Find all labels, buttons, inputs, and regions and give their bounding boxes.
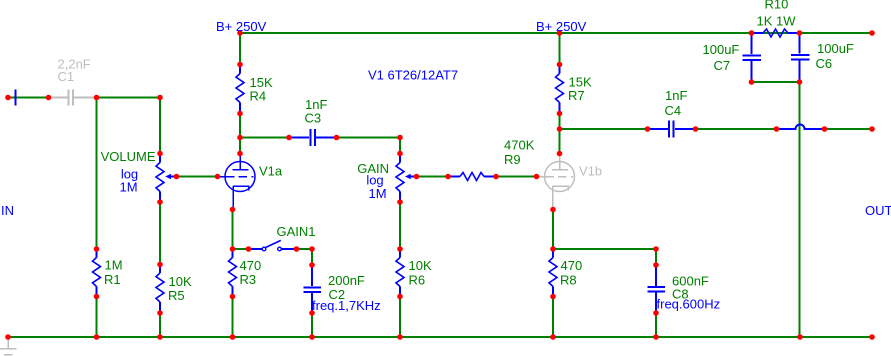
- svg-text:R8: R8: [560, 273, 577, 288]
- svg-text:R3: R3: [240, 272, 257, 287]
- svg-text:470K: 470K: [504, 138, 535, 153]
- svg-text:200nF: 200nF: [328, 273, 365, 288]
- svg-text:freq.600Hz: freq.600Hz: [657, 297, 721, 312]
- svg-text:B+ 250V: B+ 250V: [536, 19, 587, 34]
- svg-text:470: 470: [240, 258, 262, 273]
- svg-text:C4: C4: [665, 103, 682, 118]
- svg-text:1K 1W: 1K 1W: [757, 14, 797, 29]
- svg-text:1M: 1M: [368, 186, 386, 201]
- svg-text:B+ 250V: B+ 250V: [216, 19, 267, 34]
- svg-text:C7: C7: [714, 58, 731, 73]
- svg-text:IN: IN: [1, 203, 14, 218]
- svg-text:R5: R5: [168, 288, 185, 303]
- svg-text:R1: R1: [104, 272, 121, 287]
- svg-text:freq.1,7KHz: freq.1,7KHz: [312, 298, 381, 313]
- svg-text:R6: R6: [409, 273, 426, 288]
- svg-text:10K: 10K: [409, 258, 432, 273]
- svg-text:R10: R10: [765, 0, 789, 12]
- svg-text:R4: R4: [250, 89, 267, 104]
- svg-text:1nF: 1nF: [665, 88, 687, 103]
- svg-text:VOLUME: VOLUME: [101, 149, 156, 164]
- svg-text:10K: 10K: [169, 274, 192, 289]
- svg-text:C3: C3: [305, 111, 322, 126]
- svg-text:100uF: 100uF: [817, 41, 854, 56]
- svg-text:OUT: OUT: [865, 203, 891, 218]
- svg-text:V1b: V1b: [579, 164, 602, 179]
- svg-text:R7: R7: [568, 88, 585, 103]
- svg-text:100uF: 100uF: [703, 42, 740, 57]
- svg-text:V1a: V1a: [259, 164, 283, 179]
- svg-text:1M: 1M: [119, 180, 137, 195]
- svg-text:R9: R9: [504, 152, 521, 167]
- svg-text:V1 6T26/12AT7: V1 6T26/12AT7: [368, 68, 458, 83]
- svg-text:GAIN1: GAIN1: [277, 224, 316, 239]
- svg-text:C6: C6: [816, 56, 833, 71]
- svg-text:470: 470: [561, 258, 583, 273]
- svg-text:C1: C1: [58, 69, 75, 84]
- svg-text:1M: 1M: [105, 258, 123, 273]
